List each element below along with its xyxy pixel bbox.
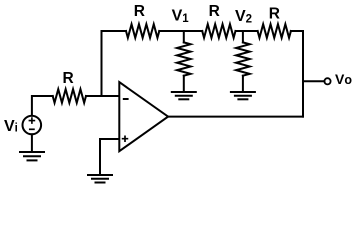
svg-text:R: R xyxy=(63,70,74,87)
wire R2 to R3 through node V2 xyxy=(236,30,258,32)
svg-text:R: R xyxy=(269,5,280,22)
terminal Vo xyxy=(324,78,330,84)
resistor R (shunt at V2) xyxy=(236,31,250,91)
wire R3 to output rail xyxy=(291,31,303,117)
wire feedback left riser xyxy=(102,31,127,96)
wire Vi ground lead xyxy=(31,134,33,151)
resistor R2 (feedback series) xyxy=(202,24,235,38)
wire R to inverting input xyxy=(86,95,118,97)
svg-text:Vi: Vi xyxy=(4,118,18,135)
op-amp U1 xyxy=(119,82,168,151)
ground (source Vi) xyxy=(20,152,44,160)
resistor R3 (feedback series) xyxy=(258,24,291,38)
ground (V1) xyxy=(172,92,196,99)
wire noninverting input xyxy=(100,139,118,174)
wire Vo tap xyxy=(303,80,324,82)
resistor R (input) xyxy=(53,89,86,103)
wire Vi top lead xyxy=(32,96,53,116)
svg-text:V1: V1 xyxy=(172,7,190,25)
voltage source Vi xyxy=(23,116,42,135)
svg-text:V2: V2 xyxy=(235,8,252,26)
resistor R (shunt at V1) xyxy=(177,31,191,91)
ground (V2) xyxy=(231,92,255,99)
svg-text:R: R xyxy=(134,3,145,20)
svg-text:Vo: Vo xyxy=(335,71,352,87)
wire R1 to R2 through node V1 xyxy=(159,30,202,32)
ground (noninverting input) xyxy=(88,175,112,183)
wire op-amp output xyxy=(168,116,303,118)
svg-text:R: R xyxy=(209,3,220,20)
resistor R1 (feedback series) xyxy=(126,24,159,38)
